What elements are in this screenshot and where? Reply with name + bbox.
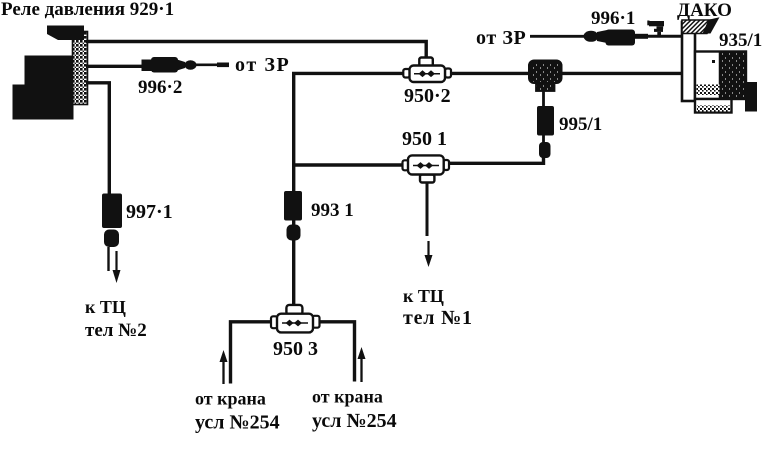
svg-text:996·2: 996·2 [138, 77, 182, 98]
ДАКО right dark block [720, 52, 747, 100]
svg-text:усл №254: усл №254 [195, 412, 280, 434]
svg-text:950·2: 950·2 [404, 85, 451, 107]
valve 993·1 [284, 191, 302, 241]
connector tee (hatched) above 995/1 [529, 61, 562, 92]
flow arrow up (left, от крана) [220, 350, 228, 384]
wire: от ЗР to fitting 996·1 [530, 35, 585, 38]
ДАКО left column [682, 22, 695, 101]
svg-text:усл №254: усл №254 [312, 410, 397, 432]
relay lower block [13, 85, 74, 120]
valve 995/1 [537, 106, 554, 158]
svg-text:тел №2: тел №2 [85, 320, 147, 341]
ДАКО main body outline [695, 52, 746, 100]
wire: main riser from 950·2 down to tee 950·3 [294, 73, 404, 306]
relay stippled column [73, 32, 88, 105]
ДАКО bottom box [695, 99, 732, 113]
outlet pipe and arrow к ТЦ №1 [425, 183, 433, 267]
wire: right arm of 950·3 [320, 322, 355, 382]
pressure relay 929·1 body [13, 26, 88, 120]
tee 950·1 [403, 155, 450, 182]
svg-text:993 1: 993 1 [311, 200, 354, 221]
svg-text:995/1: 995/1 [559, 114, 602, 135]
ДАКО top hatched parallelogram [682, 20, 714, 34]
valve 997·1 [102, 194, 122, 248]
svg-text:997·1: 997·1 [126, 201, 173, 223]
wire: branch to tee 950·1 [294, 163, 403, 166]
wire: connector down through 995/1 to 950·1 [542, 91, 545, 108]
svg-text:к ТЦ: к ТЦ [85, 297, 126, 317]
svg-text:ДАКО: ДАКО [677, 0, 732, 21]
wire: 950·2 to connector and ДАКО [450, 72, 682, 75]
wire: relay top to tee 950·2 [86, 42, 426, 59]
svg-text:950 1: 950 1 [402, 128, 447, 150]
wire: 996·1 to ДАКО [635, 35, 682, 38]
ДАКО far right block [745, 82, 757, 112]
svg-text:Реле давления 929·1: Реле давления 929·1 [1, 0, 174, 20]
relay main block [25, 56, 74, 103]
svg-text:от ЗР: от ЗР [235, 54, 290, 76]
wire: left arm of 950·3 [231, 322, 272, 384]
svg-text:к ТЦ: к ТЦ [403, 286, 444, 306]
svg-text:996·1: 996·1 [591, 8, 635, 29]
flow arrow up (right, от крана) [358, 347, 366, 382]
bleed valve on pipe before ДАКО [647, 21, 664, 37]
fitting 996·2 [142, 57, 197, 73]
tee 950·3 [271, 305, 320, 333]
ДАКО stipple band [697, 85, 720, 96]
svg-text:950 3: 950 3 [273, 338, 318, 360]
device ДАКО 935/1 [682, 17, 757, 112]
outlet pipe and arrow к ТЦ №2 [109, 247, 121, 283]
wire: relay to fitting 996·2 [86, 65, 144, 68]
svg-text:от крана: от крана [312, 387, 383, 407]
fitting 996·1 [584, 30, 636, 46]
svg-text:от крана: от крана [195, 389, 266, 409]
svg-text:от ЗР: от ЗР [476, 27, 526, 49]
tee 950·2 [403, 58, 451, 83]
ДАКО small dot [712, 60, 715, 63]
svg-text:тел №1: тел №1 [403, 307, 473, 329]
ДАКО bottom stipple band [697, 106, 730, 112]
relay top flag [47, 26, 84, 41]
svg-text:935/1: 935/1 [719, 30, 762, 51]
arrow line to ЗР (left) [196, 64, 229, 67]
wire: relay stub down to valve 997·1 [86, 83, 109, 196]
